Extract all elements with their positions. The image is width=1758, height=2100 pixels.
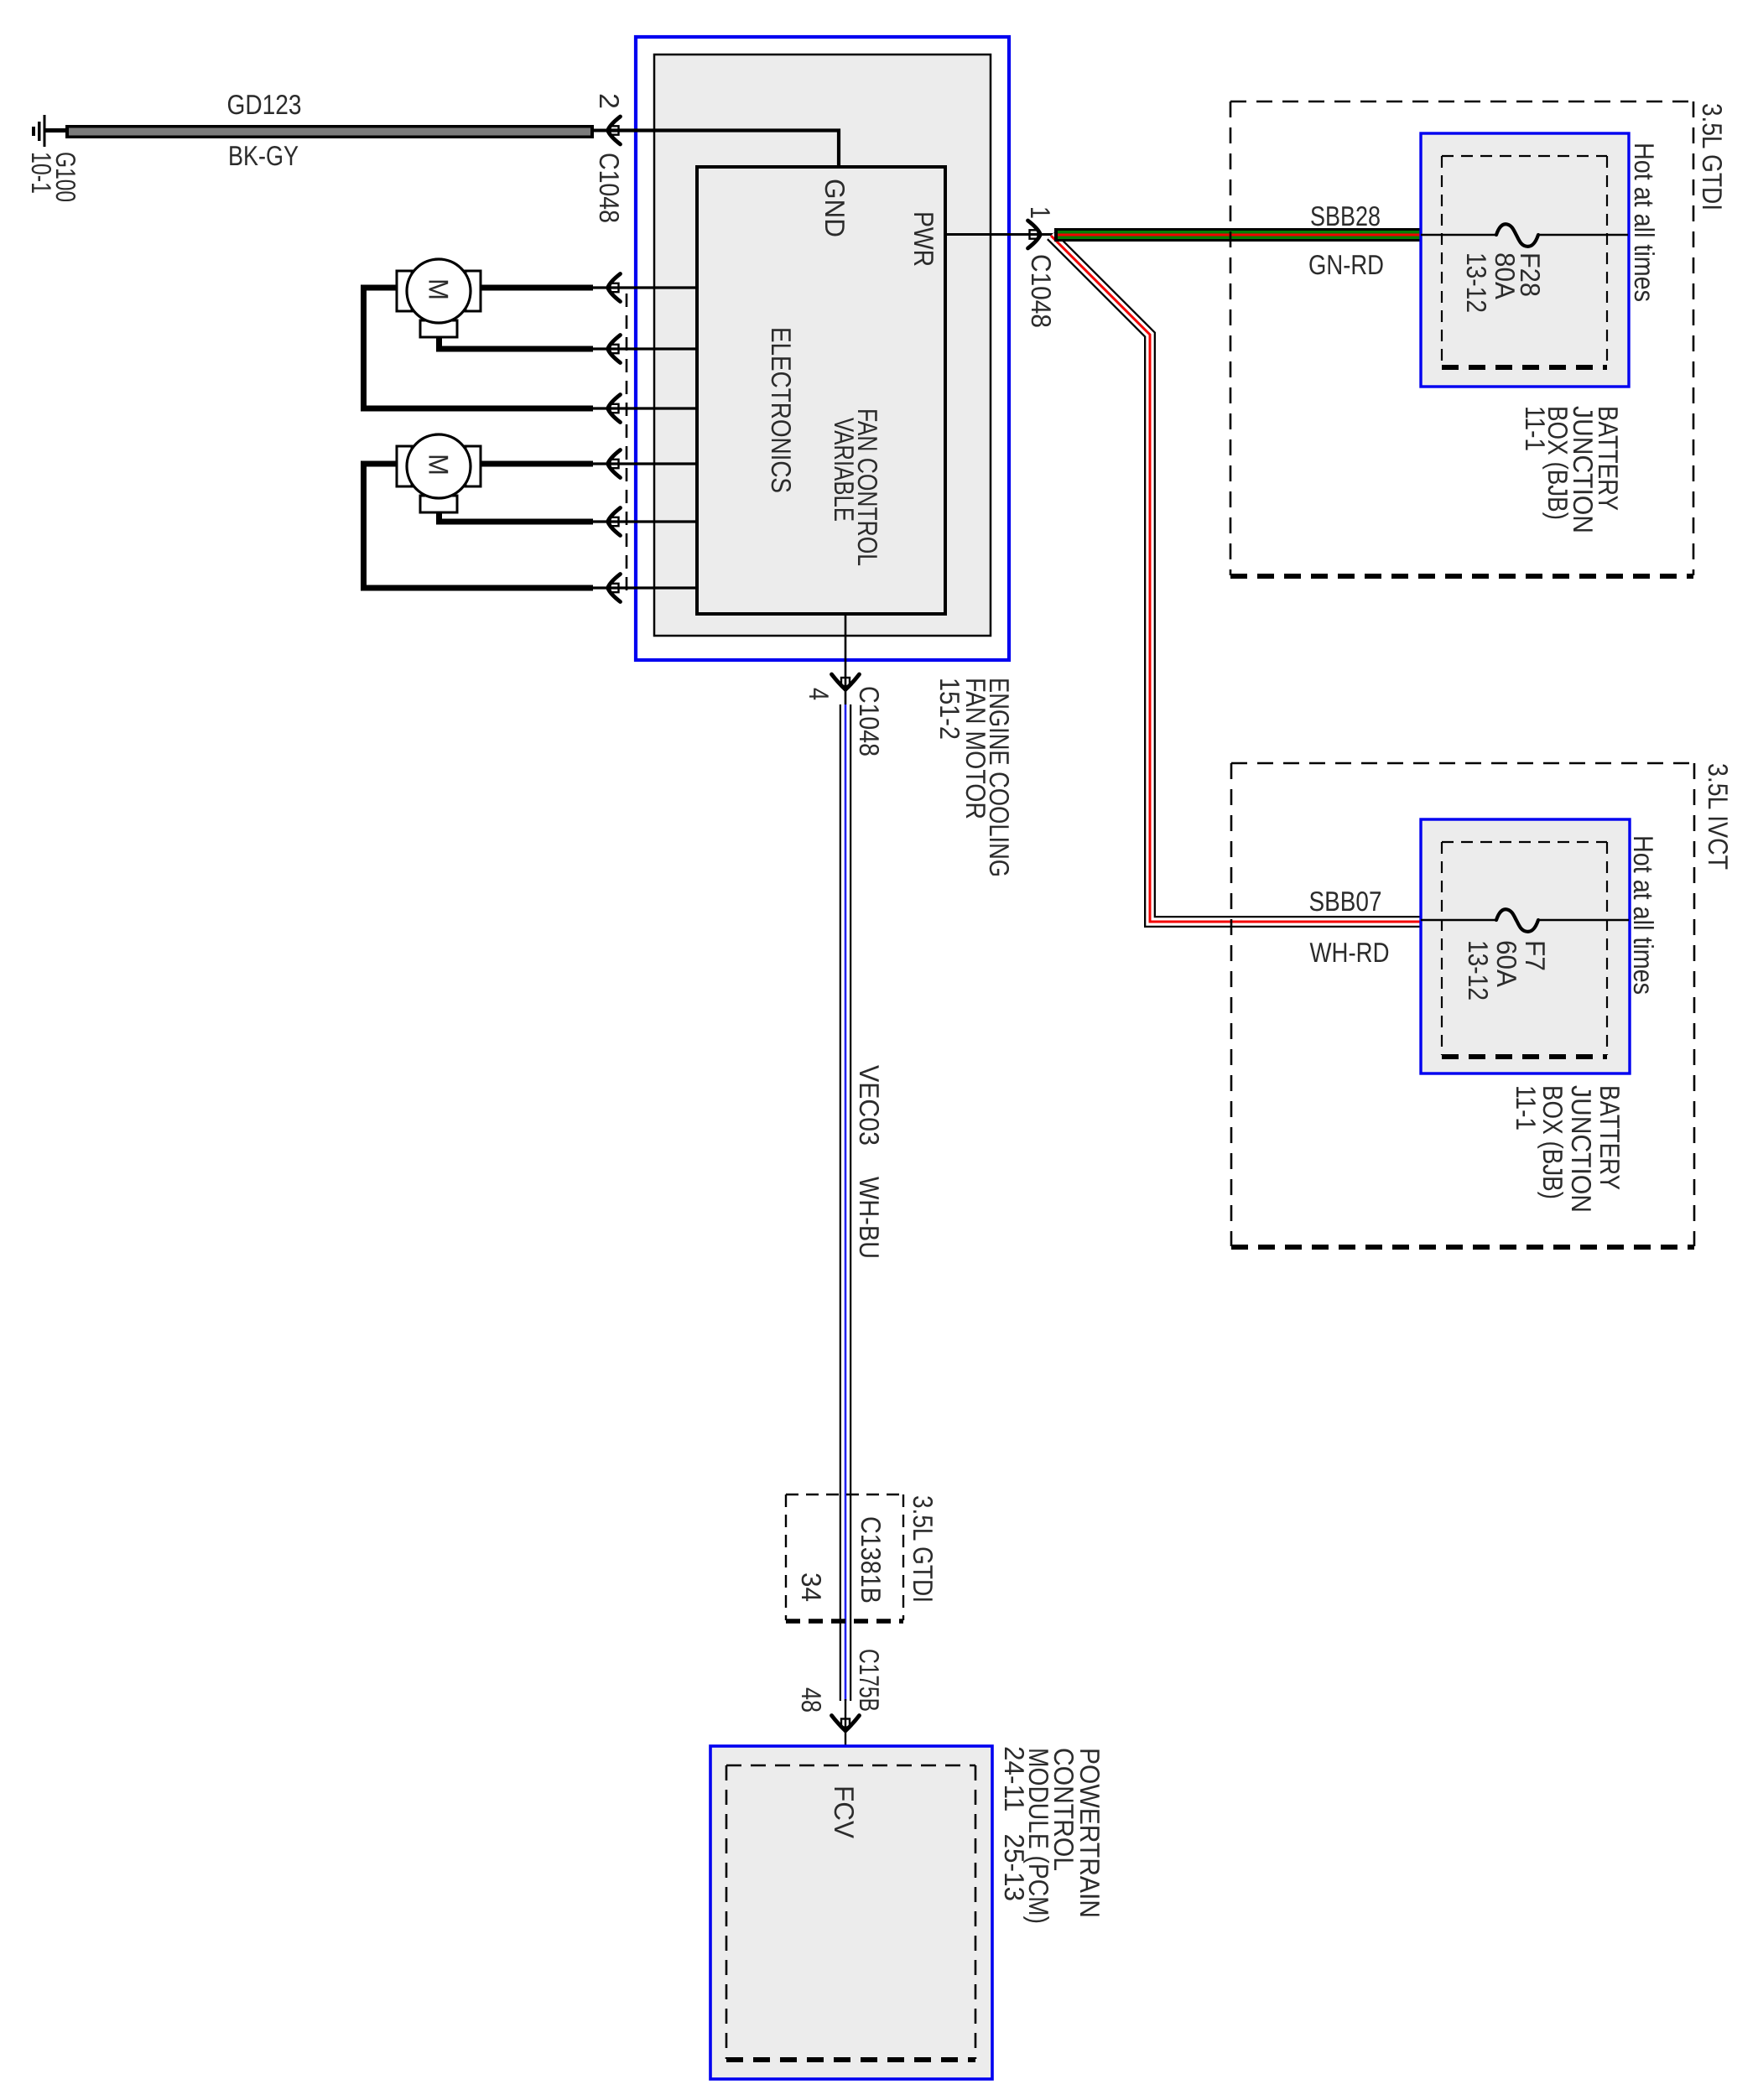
svg-text:C175B: C175B	[854, 1649, 885, 1712]
3.5L GTDI harness dashed box	[1230, 101, 1693, 576]
svg-text:80A: 80A	[1490, 252, 1521, 299]
wire from module to pin 4	[845, 613, 847, 707]
wire SBB28 GN-RD	[1054, 228, 1421, 242]
PCM inner dashed box	[726, 1765, 975, 2060]
motor connector arrow row 1	[608, 274, 621, 302]
svg-text:GD123: GD123	[227, 89, 302, 120]
fan motor inner housing box	[654, 55, 991, 636]
wire through BJB to fuse F28	[1421, 234, 1497, 236]
svg-text:13-12: 13-12	[1463, 940, 1494, 1001]
wire lead row 6 into module	[592, 586, 697, 589]
svg-text:4: 4	[804, 688, 835, 700]
svg-text:151-2: 151-2	[934, 678, 965, 740]
connector C1048 pin 2 arrow	[608, 117, 621, 144]
motor connector arrow row 2	[608, 335, 621, 363]
wire from module PWR to pin 1	[945, 233, 1055, 236]
fan motor M2 wires	[364, 464, 594, 588]
fan motor M2	[397, 434, 481, 512]
motor connector arrow row 4	[608, 450, 621, 478]
svg-text:M: M	[424, 278, 455, 300]
svg-text:24-11 25-13: 24-11 25-13	[999, 1746, 1030, 1901]
fan motor M1	[397, 259, 481, 337]
svg-text:F7: F7	[1520, 940, 1551, 971]
svg-text:11-1: 11-1	[1520, 406, 1551, 451]
motor connector arrow row 5	[608, 508, 621, 536]
svg-text:C1381B: C1381B	[856, 1516, 887, 1604]
svg-text:2: 2	[594, 93, 625, 109]
wire through BJB2 to fuse F7	[1421, 919, 1497, 921]
svg-text:BK-GY: BK-GY	[228, 140, 299, 171]
svg-text:11-1: 11-1	[1511, 1085, 1542, 1131]
wire lead row 2 into module	[592, 347, 697, 350]
wire lead row 1 into module	[592, 286, 697, 288]
wire SBB07 WH-RD	[1051, 236, 1421, 922]
svg-text:3.5L IVCT: 3.5L IVCT	[1703, 763, 1734, 870]
connector C1048 pin 4 arrow (down)	[832, 674, 860, 689]
connector C1381B dashed box	[786, 1494, 903, 1621]
wire from fuse F28 to box edge	[1538, 234, 1628, 236]
svg-text:GND: GND	[819, 179, 850, 237]
svg-text:SBB28: SBB28	[1310, 200, 1381, 231]
wire lead into PCM	[845, 1699, 846, 1765]
fuse F7 dashed box	[1442, 842, 1607, 1057]
svg-text:Hot at all times: Hot at all times	[1628, 835, 1659, 995]
svg-text:C1048: C1048	[594, 153, 625, 223]
svg-text:WH-BU: WH-BU	[854, 1177, 885, 1259]
wire lead row 3 into module	[592, 407, 697, 409]
BATTERY JUNCTION BOX 2 blue box	[1421, 819, 1630, 1073]
fuse F28 dashed box	[1442, 156, 1607, 367]
svg-text:C1048: C1048	[854, 686, 885, 756]
ENGINE COOLING FAN MOTOR component outline (blue box)	[636, 37, 1009, 660]
wire from fuse F7 to box edge	[1538, 919, 1629, 921]
svg-text:ELECTRONICS: ELECTRONICS	[766, 327, 797, 493]
wire GD123 BK-GY (ground wire)	[65, 125, 594, 138]
svg-text:M: M	[424, 454, 455, 476]
motor connector arrow row 6	[608, 574, 621, 602]
svg-text:13-12: 13-12	[1461, 252, 1492, 313]
connector C175B pin 48 arrow (down)	[832, 1716, 860, 1731]
svg-text:SBB07: SBB07	[1309, 886, 1382, 917]
svg-text:WH-RD: WH-RD	[1310, 937, 1390, 968]
fuse F7 element	[1496, 909, 1538, 932]
svg-text:34: 34	[796, 1572, 827, 1602]
VARIABLE FAN CONTROL ELECTRONICS module box	[697, 167, 945, 614]
ground G100	[32, 115, 66, 147]
svg-text:60A: 60A	[1491, 940, 1522, 987]
svg-text:C1048: C1048	[1026, 254, 1057, 328]
svg-text:3.5L GTDI: 3.5L GTDI	[1697, 103, 1728, 211]
wire from pin 2 into module (GND)	[611, 131, 839, 168]
fan motor M1 wires	[364, 288, 594, 408]
BATTERY JUNCTION BOX (BJB) blue box	[1421, 133, 1629, 387]
wire VEC03 WH-BU	[840, 704, 852, 1701]
3.5L IVCT harness dashed box	[1231, 763, 1694, 1247]
svg-text:GN-RD: GN-RD	[1308, 249, 1384, 280]
connector C1048 pin 1 arrow (right)	[1028, 221, 1041, 248]
svg-text:3.5L GTDI: 3.5L GTDI	[908, 1495, 939, 1603]
wire lead row 5 into module	[592, 520, 697, 522]
svg-text:FCV: FCV	[829, 1786, 860, 1838]
svg-text:48: 48	[796, 1687, 827, 1713]
svg-text:10-1: 10-1	[26, 152, 57, 194]
svg-text:Hot at all times: Hot at all times	[1629, 143, 1660, 302]
svg-text:VEC03: VEC03	[854, 1065, 885, 1146]
svg-text:JUNCTION: JUNCTION	[1566, 1085, 1597, 1213]
wire lead row 4 into module	[592, 462, 697, 465]
motor connector arrow row 3	[608, 395, 621, 423]
svg-text:PWR: PWR	[908, 211, 939, 267]
wire lead to pin 2	[592, 129, 606, 133]
svg-text:BATTERY: BATTERY	[1594, 1085, 1625, 1190]
POWERTRAIN CONTROL MODULE (PCM) blue box	[710, 1746, 992, 2079]
svg-text:1: 1	[1025, 206, 1056, 219]
svg-text:VARIABLE: VARIABLE	[829, 418, 860, 522]
fuse F28 element	[1496, 224, 1538, 247]
connector C1048 boundary (dashed line)	[626, 294, 628, 590]
